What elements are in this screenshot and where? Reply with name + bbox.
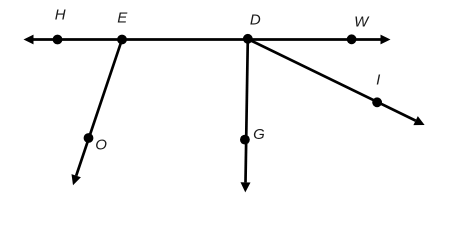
svg-text:G: G [253,126,265,143]
node G [240,135,250,145]
svg-text:O: O [95,136,107,153]
svg-text:I: I [376,72,380,89]
svg-text:H: H [55,6,66,23]
node I [372,97,382,107]
node O [84,133,94,143]
node D [243,34,253,44]
node W [347,34,357,44]
wire: ray from E through O [72,40,123,186]
svg-text:D: D [250,11,261,28]
wire: ray from D through I [248,39,425,125]
wire: ray from D through G [241,39,251,192]
node E [117,35,127,45]
svg-text:W: W [354,14,370,31]
node H [53,35,63,45]
svg-text:E: E [117,9,128,26]
wire: horizontal line HW [24,35,391,45]
